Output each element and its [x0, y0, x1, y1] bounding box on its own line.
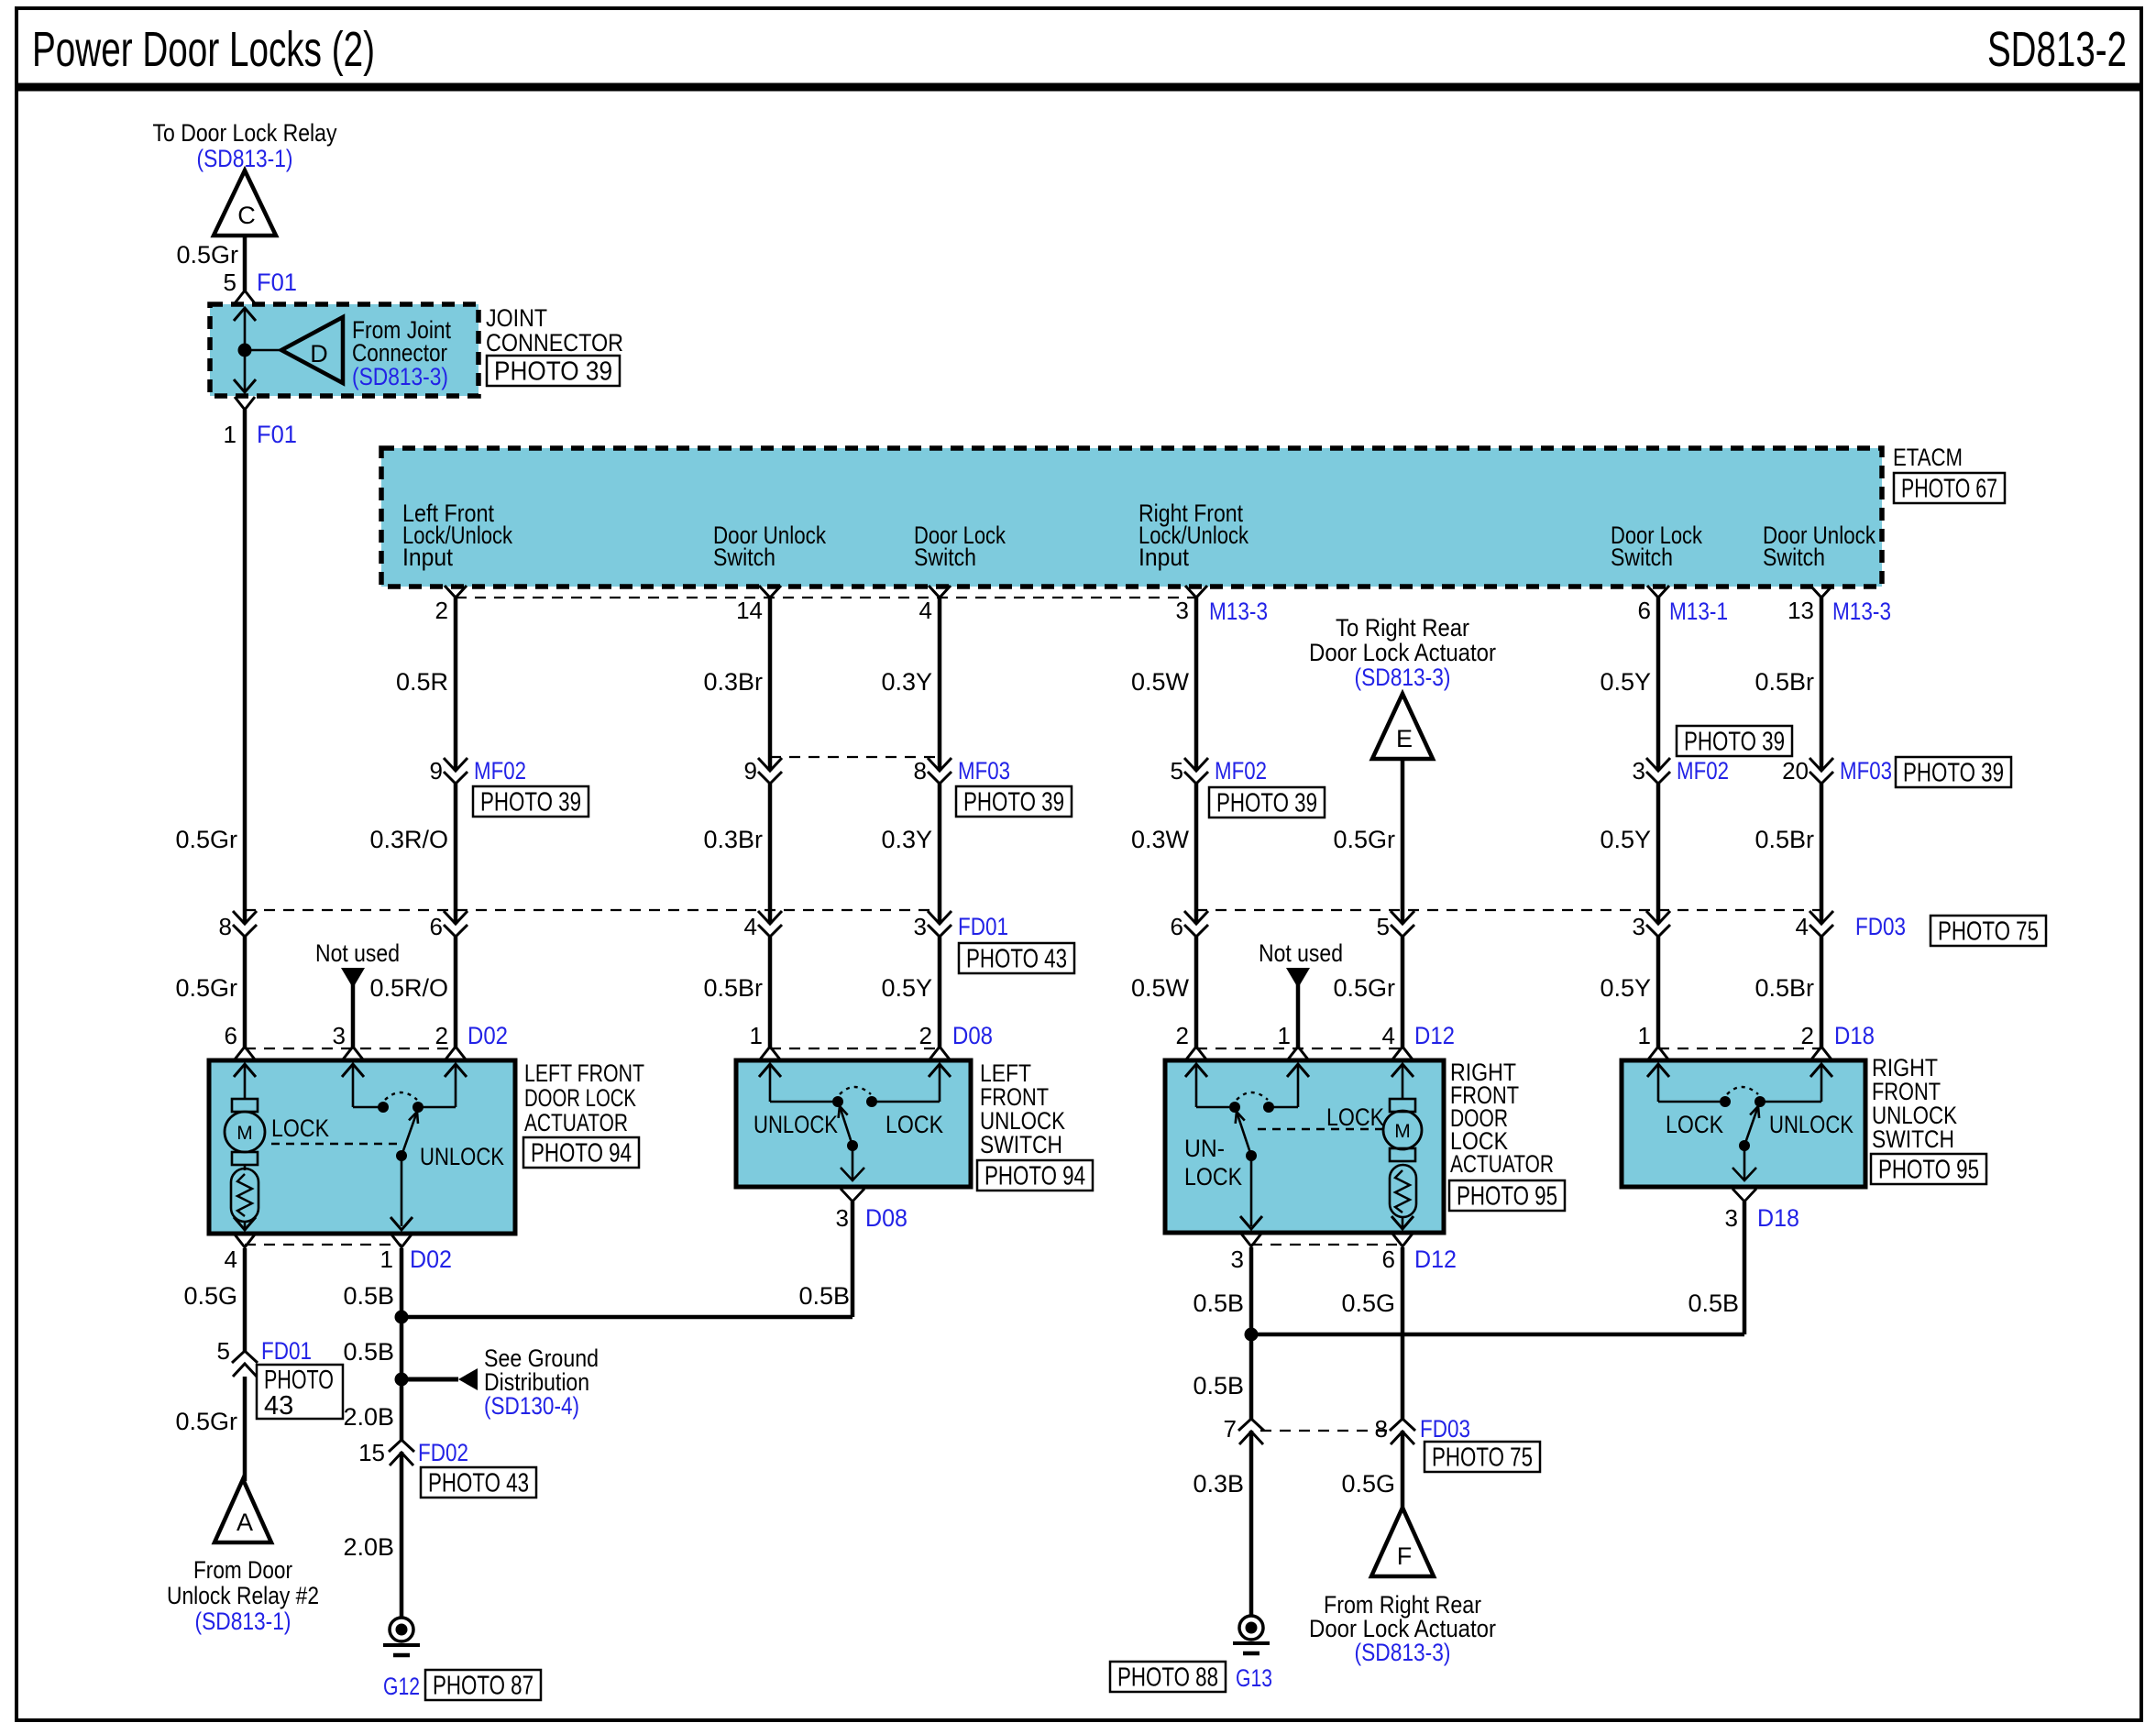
svg-text:4: 4	[744, 913, 757, 940]
wire x=1809 ETACM to boxes	[1656, 598, 1661, 1048]
photo ref PHOTO 95 actuator	[1449, 1180, 1565, 1211]
box-top dashed D08	[770, 1048, 940, 1049]
photo ref PHOTO 39 MF03a	[956, 786, 1072, 817]
svg-text:ACTUATOR: ACTUATOR	[1450, 1150, 1554, 1178]
svg-text:4: 4	[919, 597, 932, 624]
svg-text:LOCK: LOCK	[1184, 1163, 1242, 1191]
svg-text:From Door: From Door	[193, 1556, 292, 1584]
actuator L contact arc	[385, 1092, 417, 1100]
svg-text:0.5Br: 0.5Br	[1754, 826, 1814, 853]
svg-text:FD03: FD03	[1855, 913, 1906, 940]
svg-text:F: F	[1397, 1542, 1413, 1570]
photo ref PHOTO 39 MF03b	[1896, 757, 2011, 787]
ground distribution terminator	[458, 1368, 478, 1390]
svg-text:Not used: Not used	[315, 939, 400, 967]
svg-text:PHOTO 39: PHOTO 39	[1684, 728, 1785, 757]
svg-text:6: 6	[225, 1022, 237, 1049]
svg-text:F01: F01	[257, 421, 297, 448]
svg-text:M: M	[236, 1123, 253, 1144]
svg-text:D18: D18	[1834, 1022, 1875, 1049]
actuator L pin2 wire	[423, 1106, 456, 1109]
actuator R contact arc	[1237, 1092, 1268, 1100]
actuator R top crossing x=1530	[1391, 1047, 1413, 1077]
actuator R wire to pin6	[1402, 1217, 1404, 1230]
svg-text:3: 3	[1633, 913, 1645, 940]
svg-text:ACTUATOR: ACTUATOR	[524, 1109, 628, 1136]
svg-text:0.5B: 0.5B	[343, 1282, 394, 1310]
svg-text:0.3Y: 0.3Y	[881, 668, 932, 696]
svg-text:PHOTO 67: PHOTO 67	[1901, 475, 1997, 504]
triangle D (from joint connector)	[281, 317, 343, 383]
svg-text:A: A	[236, 1509, 253, 1536]
actuator R switch arm	[1237, 1112, 1251, 1156]
not-used stub wire right	[1296, 982, 1301, 1048]
actuator R bottom crossing pin6	[1391, 1216, 1413, 1246]
off-page triangle C	[214, 170, 276, 236]
photo ref PHOTO 43 FD01 left	[257, 1365, 343, 1419]
svg-text:PHOTO 39: PHOTO 39	[480, 788, 581, 818]
MF connector at x=1987	[1819, 771, 1824, 784]
FD row connector at x=1305	[1193, 924, 1199, 937]
photo ref PHOTO 95 switch	[1871, 1154, 1986, 1184]
svg-text:(SD813-3): (SD813-3)	[1355, 1639, 1451, 1666]
actuator R motor feed wire	[1402, 1065, 1404, 1099]
FD row dashed right	[1196, 909, 1821, 911]
svg-text:M13-1: M13-1	[1669, 598, 1728, 625]
svg-text:0.5R: 0.5R	[396, 668, 448, 696]
svg-text:5: 5	[1171, 757, 1183, 785]
svg-text:3: 3	[1633, 757, 1645, 785]
photo ref PHOTO 39 MF02b	[1209, 787, 1325, 818]
junction dot right 0.5B	[1245, 1328, 1259, 1342]
svg-text:0.5W: 0.5W	[1131, 974, 1190, 1002]
svg-text:MF02: MF02	[474, 757, 526, 785]
actuator L resistor link	[244, 1165, 247, 1170]
svg-text:0.5R/O: 0.5R/O	[369, 974, 448, 1002]
unlock switch L pivot dot	[847, 1140, 858, 1151]
svg-text:G13: G13	[1236, 1664, 1272, 1692]
svg-text:0.5B: 0.5B	[1193, 1372, 1244, 1399]
svg-text:D: D	[310, 340, 328, 368]
svg-text:PHOTO 39: PHOTO 39	[1903, 759, 2004, 788]
svg-text:0.5Br: 0.5Br	[1754, 974, 1814, 1002]
actuator R pin1 wire	[1273, 1106, 1298, 1109]
MF connector at x=1305	[1193, 771, 1199, 784]
not-used terminator right	[1286, 968, 1310, 988]
svg-text:0.5Gr: 0.5Gr	[175, 826, 237, 853]
ETACM pin 6 fork	[1647, 586, 1669, 598]
svg-text:UNLOCK: UNLOCK	[1769, 1111, 1853, 1138]
box-top dashed D02	[245, 1048, 456, 1049]
svg-text:D18: D18	[1757, 1204, 1799, 1232]
svg-text:M13-3: M13-3	[1209, 598, 1268, 625]
svg-text:1: 1	[1278, 1022, 1291, 1049]
svg-text:LOCK: LOCK	[271, 1114, 329, 1142]
svg-text:0.5B: 0.5B	[798, 1282, 850, 1310]
actuator R bottom dashed	[1251, 1244, 1402, 1246]
FD row connector at x=840	[767, 924, 773, 937]
svg-text:MF02: MF02	[1215, 757, 1267, 785]
MF connector at x=497	[453, 771, 458, 784]
actuator R contact dot a	[1229, 1102, 1240, 1113]
wire D12-6 down to F	[1401, 1247, 1405, 1510]
svg-text:0.5Y: 0.5Y	[1600, 668, 1651, 696]
svg-text:43: 43	[264, 1391, 293, 1421]
svg-text:3: 3	[1231, 1246, 1244, 1273]
svg-text:DOOR LOCK: DOOR LOCK	[524, 1084, 636, 1112]
svg-text:PHOTO 95: PHOTO 95	[1878, 1156, 1979, 1185]
svg-text:Unlock Relay #2: Unlock Relay #2	[167, 1582, 319, 1609]
svg-text:PHOTO 94: PHOTO 94	[984, 1162, 1085, 1191]
svg-text:2.0B: 2.0B	[343, 1403, 394, 1431]
svg-text:To Door Lock Relay: To Door Lock Relay	[153, 119, 337, 147]
svg-text:0.5Y: 0.5Y	[881, 974, 932, 1002]
unlock switch R top crossing x=1809	[1647, 1047, 1669, 1077]
svg-text:D02: D02	[467, 1022, 508, 1049]
photo ref PHOTO 75 FD03	[1930, 916, 2046, 946]
wire 0.5B horizontal right	[1251, 1333, 1744, 1337]
photo ref PHOTO 43 FD01	[959, 943, 1074, 973]
svg-text:1: 1	[380, 1246, 393, 1273]
unlock switch R contact dot a	[1720, 1096, 1731, 1107]
connector FD03-8 chevrons	[1400, 1419, 1405, 1431]
junction dot in joint box	[238, 344, 252, 357]
svg-text:Switch: Switch	[914, 543, 976, 571]
svg-text:PHOTO 95: PHOTO 95	[1457, 1182, 1557, 1212]
actuator L pivot wire down	[401, 1156, 403, 1226]
svg-text:PHOTO 39: PHOTO 39	[494, 357, 612, 387]
svg-text:4: 4	[225, 1246, 237, 1273]
actuator R top crossing x=1305	[1185, 1047, 1207, 1077]
svg-text:MF03: MF03	[958, 757, 1010, 785]
svg-text:D08: D08	[865, 1204, 907, 1232]
wire FD01-5 to triangle A	[243, 1377, 247, 1481]
ETACM pin 14 fork	[759, 586, 781, 598]
wire inside joint box	[244, 310, 247, 391]
resistor (PTC) left actuator	[231, 1169, 258, 1222]
actuator R pivot dot	[1246, 1150, 1257, 1161]
svg-text:2: 2	[1801, 1022, 1814, 1049]
not-used stub wire left	[351, 982, 356, 1048]
svg-text:3: 3	[1176, 597, 1189, 624]
svg-text:0.3Br: 0.3Br	[703, 668, 763, 696]
svg-text:0.5Y: 0.5Y	[1600, 974, 1651, 1002]
photo ref PHOTO 39 MF02c	[1677, 726, 1792, 756]
svg-text:2: 2	[435, 597, 448, 624]
svg-text:6: 6	[430, 913, 443, 940]
svg-text:FD01: FD01	[261, 1337, 312, 1365]
svg-text:1: 1	[1638, 1022, 1651, 1049]
wire D08-3 down	[851, 1202, 855, 1317]
ground G13	[1239, 1616, 1263, 1640]
photo ref PHOTO 39 MF02a	[473, 786, 588, 817]
actuator L pivot dot	[396, 1150, 407, 1161]
svg-text:2.0B: 2.0B	[343, 1533, 394, 1561]
unlock switch L top crossing x=1025	[929, 1047, 951, 1077]
svg-text:0.5Gr: 0.5Gr	[1333, 974, 1395, 1002]
joint connector box	[210, 304, 478, 396]
svg-text:8: 8	[914, 757, 927, 785]
FD row connector at x=1025	[937, 924, 942, 937]
svg-text:15: 15	[358, 1439, 385, 1466]
wire x=1987 ETACM to boxes	[1820, 598, 1824, 1048]
wire C to F01	[243, 236, 247, 291]
svg-text:0.5G: 0.5G	[1341, 1470, 1395, 1498]
unlock switch R pivot wire	[1743, 1146, 1746, 1180]
svg-text:PHOTO 39: PHOTO 39	[1216, 789, 1317, 818]
off-page triangle F	[1371, 1508, 1434, 1576]
resistor (PTC) right actuator	[1390, 1165, 1416, 1217]
wire x=1305 ETACM to boxes	[1194, 598, 1199, 1048]
unlock switch L pivot wire	[852, 1146, 854, 1180]
svg-text:14: 14	[736, 597, 763, 624]
svg-text:6: 6	[1382, 1246, 1395, 1273]
actuator L pin3 wire	[352, 1065, 355, 1107]
svg-text:SWITCH: SWITCH	[980, 1131, 1062, 1158]
svg-text:Switch: Switch	[713, 543, 775, 571]
photo ref PHOTO 88	[1110, 1662, 1226, 1692]
svg-text:4: 4	[1382, 1022, 1395, 1049]
actuator R contact dot b	[1263, 1102, 1274, 1113]
connector FD01-5 chevrons	[242, 1351, 247, 1363]
photo ref PHOTO 75 bottom	[1424, 1442, 1540, 1472]
svg-text:0.5G: 0.5G	[183, 1282, 237, 1310]
photo ref PHOTO 94 actuator	[523, 1137, 639, 1168]
wire D18-3 down	[1743, 1202, 1747, 1334]
svg-text:(SD130-4): (SD130-4)	[484, 1392, 579, 1420]
svg-text:D02: D02	[410, 1246, 452, 1273]
unlock switch L contact dot b	[866, 1096, 877, 1107]
unlock switch L arm	[840, 1106, 852, 1146]
actuator L motor bottom terminal	[232, 1152, 258, 1165]
actuator R motor top terminal	[1390, 1099, 1415, 1112]
actuator L top crossing x=267	[234, 1047, 256, 1077]
unlock switch R bottom crossing	[1732, 1189, 1756, 1202]
junction dot ground distribution	[395, 1373, 409, 1387]
wire D12-3 down to ground G13	[1249, 1247, 1254, 1616]
FD row connector at x=1987	[1819, 924, 1824, 937]
unlock switch R contact arc	[1727, 1087, 1758, 1094]
svg-text:3: 3	[914, 913, 927, 940]
svg-text:(SD813-3): (SD813-3)	[1355, 664, 1451, 691]
FD row connector at x=1809	[1655, 924, 1661, 937]
svg-text:D12: D12	[1414, 1246, 1457, 1273]
ETACM pin 2 fork	[445, 586, 467, 598]
crossing at joint box bottom	[234, 379, 256, 410]
svg-text:SD813-2: SD813-2	[1987, 22, 2127, 77]
junction dot 0.5B	[395, 1311, 409, 1324]
svg-text:Input: Input	[402, 543, 453, 571]
svg-text:M: M	[1394, 1121, 1411, 1142]
svg-text:5: 5	[224, 269, 236, 296]
svg-text:JOINT: JOINT	[486, 304, 547, 332]
svg-text:LEFT FRONT: LEFT FRONT	[524, 1059, 644, 1087]
actuator L switch arm	[401, 1112, 417, 1156]
svg-text:PHOTO 39: PHOTO 39	[963, 788, 1064, 818]
unlock switch L pin1 wire	[769, 1065, 772, 1102]
svg-text:PHOTO 94: PHOTO 94	[531, 1139, 632, 1169]
svg-text:4: 4	[1796, 913, 1809, 940]
svg-text:MF02: MF02	[1677, 757, 1729, 785]
photo ref PHOTO 67	[1894, 473, 2005, 503]
right front unlock switch box	[1622, 1060, 1865, 1187]
not-used terminator left	[341, 968, 365, 988]
svg-text:G12: G12	[383, 1673, 420, 1700]
svg-text:0.5B: 0.5B	[1193, 1290, 1244, 1317]
ETACM module box	[381, 448, 1882, 587]
svg-text:0.3W: 0.3W	[1131, 826, 1190, 853]
MF connector at x=1025	[937, 771, 942, 784]
svg-text:9: 9	[744, 757, 757, 785]
svg-text:FD01: FD01	[958, 913, 1008, 940]
box-top dashed D18	[1658, 1048, 1821, 1049]
svg-text:(SD813-3): (SD813-3)	[352, 363, 448, 390]
right front door lock actuator box	[1165, 1060, 1444, 1233]
actuator L top crossing x=497	[445, 1047, 467, 1077]
left front door lock actuator box	[209, 1060, 515, 1234]
svg-text:UNLOCK: UNLOCK	[753, 1111, 838, 1138]
actuator R pin2 wire	[1195, 1065, 1198, 1107]
svg-text:LOCK: LOCK	[885, 1111, 943, 1138]
svg-text:5: 5	[217, 1337, 230, 1365]
FD row connector at x=497	[453, 924, 458, 937]
wire 0.5B horizontal	[401, 1315, 852, 1320]
actuator L motor top terminal	[232, 1099, 258, 1112]
svg-text:3: 3	[836, 1204, 849, 1232]
unlock switch R pin2 wire	[1765, 1101, 1821, 1103]
unlock switch L pin2 wire	[876, 1101, 940, 1103]
svg-text:0.5Gr: 0.5Gr	[175, 1408, 237, 1435]
svg-text:0.3Y: 0.3Y	[881, 826, 932, 853]
svg-text:Switch: Switch	[1763, 543, 1825, 571]
wire E down	[1401, 759, 1405, 1048]
wire x=1025 ETACM to boxes	[938, 598, 942, 1048]
svg-text:Not used: Not used	[1259, 939, 1343, 967]
svg-text:PHOTO 87: PHOTO 87	[433, 1672, 533, 1701]
photo ref PHOTO 87	[425, 1670, 541, 1700]
box-top dashed D12	[1196, 1048, 1402, 1049]
svg-text:0.5B: 0.5B	[343, 1338, 394, 1366]
FD row connector at x=1530	[1400, 924, 1405, 937]
actuator L bottom crossing pin4	[234, 1217, 256, 1247]
svg-text:2: 2	[1176, 1022, 1189, 1049]
svg-text:To Right Rear: To Right Rear	[1336, 614, 1469, 642]
unlock switch R contact dot b	[1754, 1096, 1765, 1107]
ground distribution stub	[401, 1377, 458, 1382]
svg-text:Door Lock Actuator: Door Lock Actuator	[1309, 639, 1496, 666]
svg-text:0.3R/O: 0.3R/O	[369, 826, 448, 853]
svg-text:E: E	[1396, 725, 1413, 752]
wire x=497 ETACM to boxes	[454, 598, 458, 1048]
svg-text:Input: Input	[1138, 543, 1189, 571]
off-page triangle E	[1372, 694, 1433, 759]
wire pin4 down to FD01-5	[243, 1248, 247, 1351]
wire pin1 down to ground	[400, 1248, 404, 1618]
unlock switch R pivot dot	[1739, 1140, 1750, 1151]
ETACM pin 13 fork	[1810, 586, 1832, 598]
actuator L top crossing x=385	[342, 1047, 364, 1077]
motor M left actuator	[225, 1112, 265, 1152]
unlock switch R pin1 wire	[1657, 1065, 1660, 1102]
svg-text:3: 3	[1725, 1204, 1738, 1232]
svg-text:9: 9	[430, 757, 443, 785]
svg-text:6: 6	[1638, 597, 1651, 624]
svg-text:0.3Br: 0.3Br	[703, 826, 763, 853]
svg-text:0.5B: 0.5B	[1688, 1290, 1739, 1317]
svg-text:PHOTO 75: PHOTO 75	[1938, 917, 2039, 947]
ETACM pin row dashed line	[456, 597, 1196, 598]
ETACM pin 3 fork	[1185, 586, 1207, 598]
svg-text:PHOTO 88: PHOTO 88	[1117, 1663, 1218, 1693]
svg-text:0.5Y: 0.5Y	[1600, 826, 1651, 853]
mech dashed link L	[271, 1143, 403, 1145]
motor M right actuator	[1383, 1111, 1422, 1149]
svg-text:7: 7	[1224, 1415, 1237, 1443]
svg-text:(SD813-1): (SD813-1)	[195, 1608, 291, 1635]
actuator L contact dot a	[378, 1102, 389, 1113]
actuator R top crossing x=1416	[1287, 1047, 1309, 1077]
wire F01 down to FD01 row	[243, 410, 247, 1048]
svg-text:Switch: Switch	[1611, 543, 1673, 571]
actuator L contact dot b	[412, 1102, 423, 1113]
MF row dashed segment	[770, 756, 940, 758]
svg-text:PHOTO 43: PHOTO 43	[966, 945, 1067, 974]
svg-text:LOCK: LOCK	[1326, 1103, 1384, 1131]
actuator L bottom crossing pin1	[390, 1217, 412, 1247]
MF connector at x=1809	[1655, 771, 1661, 784]
svg-text:0.5Gr: 0.5Gr	[1333, 826, 1395, 853]
svg-text:CONNECTOR: CONNECTOR	[486, 329, 623, 357]
svg-text:1: 1	[750, 1022, 763, 1049]
actuator L bottom dashed	[245, 1244, 401, 1246]
svg-text:UNLOCK: UNLOCK	[420, 1143, 504, 1170]
FD row connector at x=267	[242, 924, 247, 937]
svg-text:M13-3: M13-3	[1832, 598, 1891, 625]
svg-text:PHOTO 43: PHOTO 43	[428, 1469, 529, 1498]
crossing at joint box top	[234, 291, 256, 321]
svg-text:3: 3	[333, 1022, 346, 1049]
svg-text:0.5Br: 0.5Br	[1754, 668, 1814, 696]
actuator R motor bottom terminal	[1390, 1148, 1415, 1161]
photo ref PHOTO 94 switch	[977, 1160, 1093, 1191]
actuator L wire to pin4	[244, 1222, 247, 1231]
unlock switch R top crossing x=1987	[1810, 1047, 1832, 1077]
unlock switch L contact dot a	[832, 1096, 843, 1107]
svg-text:8: 8	[219, 913, 232, 940]
svg-text:0.5Br: 0.5Br	[703, 974, 763, 1002]
actuator R bottom crossing pin3	[1240, 1216, 1262, 1246]
svg-text:0.5Gr: 0.5Gr	[176, 241, 238, 269]
svg-text:0.5G: 0.5G	[1341, 1290, 1395, 1317]
ground G12	[390, 1618, 413, 1641]
wire x=840 ETACM to boxes	[768, 598, 773, 1048]
svg-text:FD03: FD03	[1420, 1415, 1470, 1443]
ETACM pin 4 fork	[929, 586, 951, 598]
svg-text:13: 13	[1787, 597, 1814, 624]
actuator L motor feed wire	[244, 1065, 247, 1099]
svg-text:0.5W: 0.5W	[1131, 668, 1190, 696]
svg-text:8: 8	[1375, 1415, 1388, 1443]
svg-text:D12: D12	[1414, 1022, 1455, 1049]
title rule	[16, 83, 2141, 92]
actuator R pivot wire down	[1250, 1156, 1253, 1226]
svg-text:5: 5	[1377, 913, 1390, 940]
unlock switch L top crossing x=840	[759, 1047, 781, 1077]
svg-text:1: 1	[224, 421, 236, 448]
FD03 row dashed	[1260, 1430, 1393, 1432]
connector FD03-7 chevrons	[1248, 1419, 1254, 1431]
svg-text:Power Door Locks (2): Power Door Locks (2)	[32, 22, 375, 77]
